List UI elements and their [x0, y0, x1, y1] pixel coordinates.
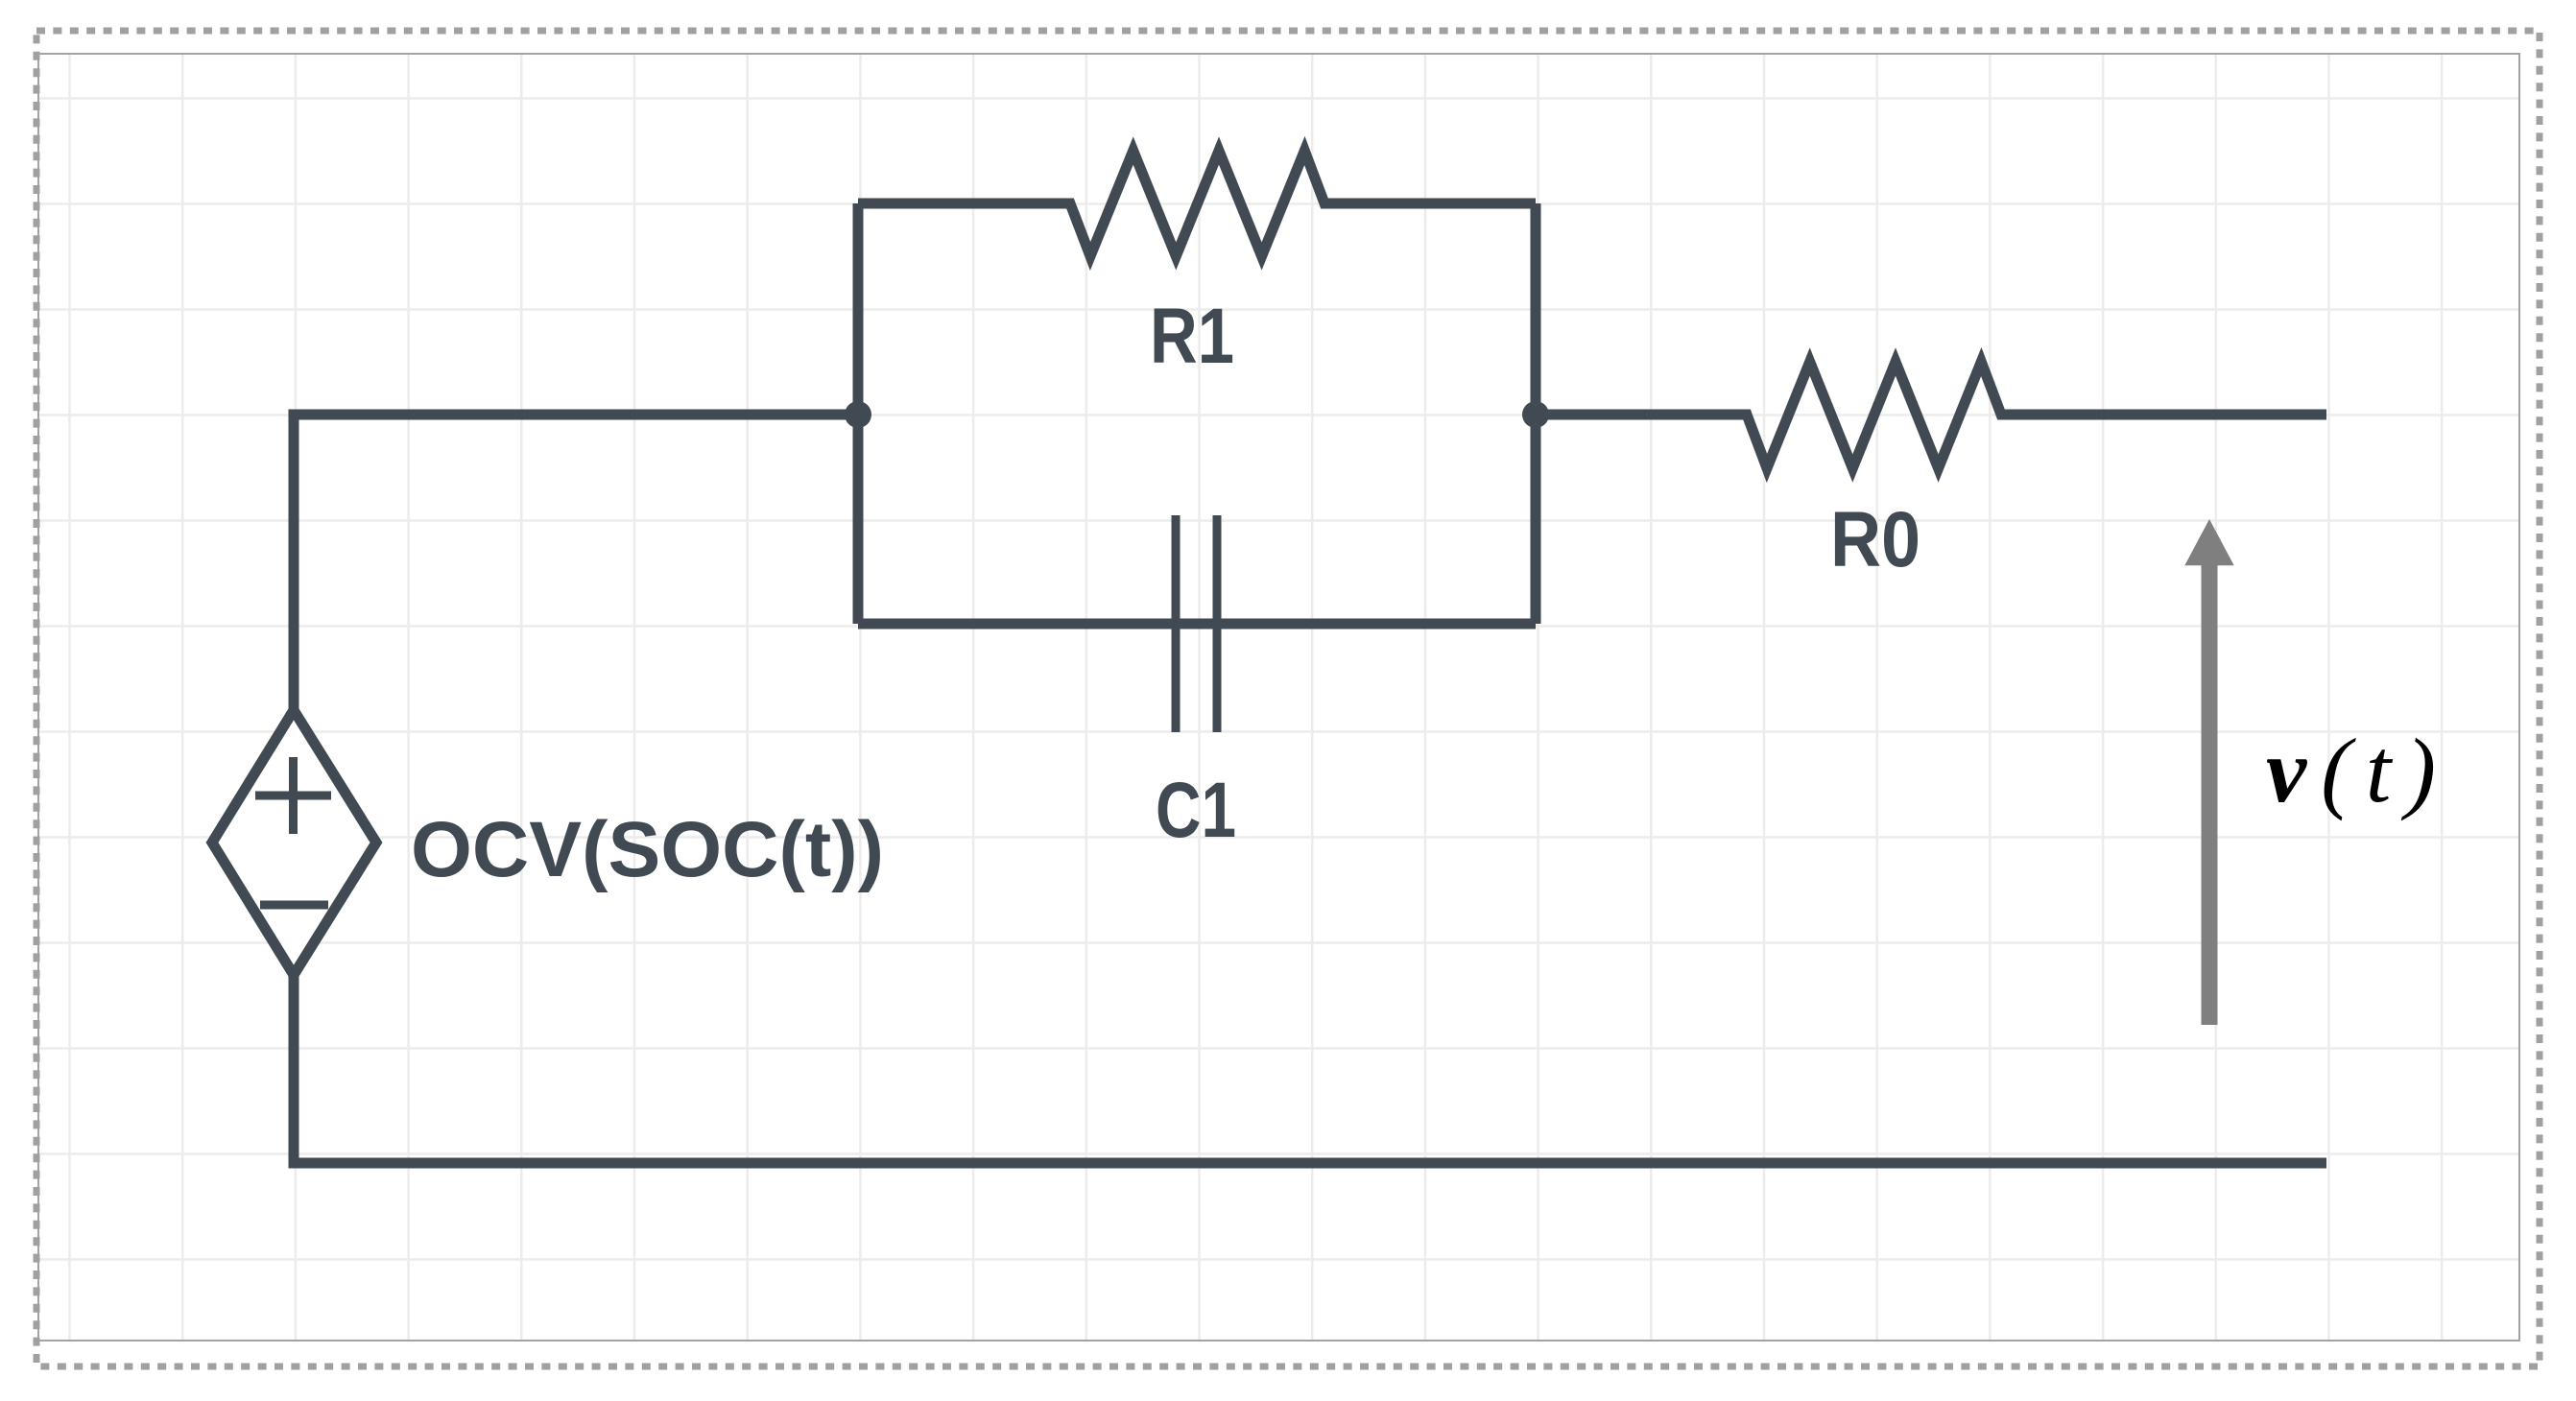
svg-text:C1: C1: [1156, 767, 1236, 854]
wire: left top horizontal from source to node A: [294, 415, 858, 711]
wire: RC loop right vertical: [1531, 203, 1541, 624]
svg-text:R1: R1: [1150, 293, 1234, 380]
resistor R0 (zigzag on output wire): [1536, 362, 2326, 468]
resistor R1 (zigzag on loop top): [858, 151, 1536, 256]
dependent source OCV diamond: [212, 710, 376, 975]
wire: RC loop left vertical: [853, 203, 864, 624]
wire: RC loop bottom (capacitor branch): [858, 619, 1536, 629]
v(t) arrow shaft: [2202, 565, 2218, 1025]
node B junction dot: [1522, 401, 1549, 428]
grid horizontal lines: [38, 99, 2519, 1260]
source plus sign: [255, 757, 331, 834]
v(t) arrow head: [2184, 519, 2233, 565]
node A junction dot: [845, 401, 871, 428]
wire: bottom rail: [289, 1158, 2327, 1169]
capacitor C1 plates: [1176, 515, 1217, 732]
source minus sign: [260, 901, 328, 910]
svg-text:R0: R0: [1830, 496, 1920, 583]
svg-text:v(t): v(t): [2266, 720, 2436, 821]
svg-text:OCV(SOC(t)): OCV(SOC(t)): [411, 806, 884, 893]
wire: source bottom to bottom rail: [289, 973, 299, 1163]
